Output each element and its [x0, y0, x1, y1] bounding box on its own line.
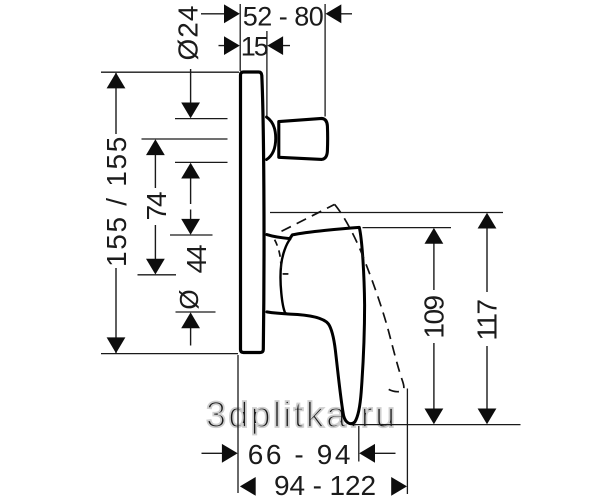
svg-text:94 - 122: 94 - 122: [274, 470, 376, 500]
svg-text:52 - 80: 52 - 80: [243, 1, 324, 31]
svg-text:109: 109: [418, 295, 449, 338]
svg-text:155 / 155: 155 / 155: [101, 135, 132, 267]
svg-text:66 - 94: 66 - 94: [248, 439, 353, 470]
svg-text:74: 74: [141, 192, 172, 220]
svg-text:117: 117: [472, 300, 503, 341]
svg-text:15: 15: [241, 32, 268, 62]
svg-text:3dplitka.ru: 3dplitka.ru: [206, 394, 397, 435]
svg-text:44: 44: [181, 245, 212, 273]
svg-text:Ø: Ø: [174, 289, 204, 309]
svg-text:Ø24: Ø24: [173, 5, 204, 61]
